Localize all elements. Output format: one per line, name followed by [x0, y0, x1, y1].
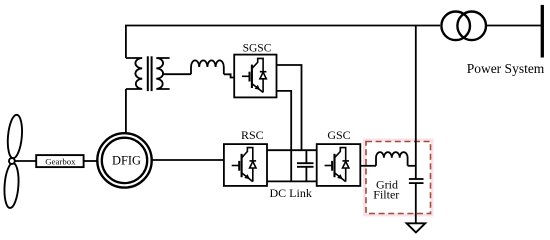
DFIG generator [97, 133, 151, 187]
SGSC converter U1 [234, 55, 276, 98]
transformer T1 right winding [156, 58, 169, 89]
svg-text:Filter: Filter [373, 188, 399, 202]
wire DFIG stator up to transformer [125, 89, 127, 134]
inductor L1 [191, 60, 224, 74]
GSC converter U3 [317, 144, 361, 186]
transformer T1 left winding [126, 58, 142, 89]
RSC converter U2 [224, 144, 267, 186]
svg-text:GSC: GSC [327, 128, 350, 142]
svg-text:DC Link: DC Link [270, 186, 312, 200]
wire T2 to power system bus [487, 25, 542, 27]
wire winding tap to inductor L1 [162, 73, 191, 75]
DC link top rail [267, 149, 317, 151]
inductor L2 grid filter [376, 152, 408, 166]
grid filter box dashed border [366, 142, 431, 214]
wire inductor L1 to SGSC [224, 74, 234, 77]
grid vertical wire lower [415, 183, 417, 223]
grid filter box (pink halo) [366, 142, 431, 214]
svg-text:RSC: RSC [241, 128, 264, 142]
svg-text:SGSC: SGSC [243, 42, 272, 54]
svg-text:Gearbox: Gearbox [45, 157, 76, 167]
top bus wire [125, 25, 440, 27]
capacitor C2 grid filter [409, 179, 424, 183]
wire transformer to top bus [125, 26, 127, 59]
shaft wire [14, 160, 36, 162]
svg-text:DFIG: DFIG [112, 153, 141, 167]
capacitor C1 DC link [297, 150, 314, 181]
gearbox [36, 155, 83, 167]
transformer T2 grid coupling [441, 11, 486, 40]
wire filter inductor to grid line [408, 165, 416, 167]
wire GSC to grid filter inductor [360, 165, 376, 167]
wire gearbox to DFIG [84, 160, 97, 162]
transformer T1 core [147, 56, 149, 91]
wire DFIG rotor to RSC [153, 159, 224, 161]
ground [407, 223, 426, 232]
wind turbine blades [3, 114, 24, 208]
wire SGSC bottom terminal down to DC link [277, 91, 292, 181]
DC link bottom rail [267, 180, 317, 182]
svg-text:Power System: Power System [467, 61, 545, 76]
grid vertical wire upper [415, 26, 417, 180]
power system bus bar [541, 5, 544, 58]
wire SGSC top terminal down to DC link [277, 65, 302, 150]
